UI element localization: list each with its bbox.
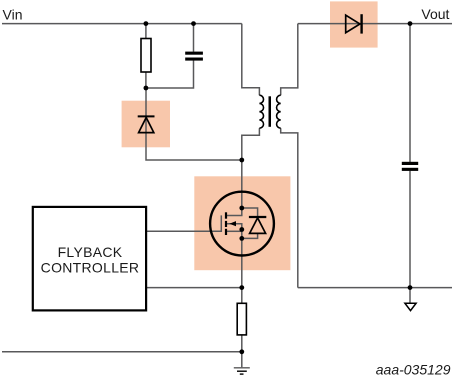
wire Vin rail (2, 23, 242, 25)
wire output capacitor C2 leads (409, 24, 411, 288)
transistor Q1 MOSFET circle (210, 192, 274, 256)
svg-text:FLYBACK: FLYBACK (58, 244, 123, 260)
capacitor C1 snubber (185, 52, 203, 61)
highlight box MOSFET Q1 (194, 176, 290, 270)
wire MOSFET body-diode anode branch (242, 234, 258, 239)
ground symbol primary (234, 368, 250, 374)
highlight box output diode D2 (330, 1, 378, 47)
wire output rail top (298, 23, 452, 25)
ground symbol secondary (405, 303, 416, 310)
wire R1 top lead (145, 24, 147, 39)
svg-text:aaa-035129: aaa-035129 (376, 362, 451, 378)
node Vout (408, 21, 413, 26)
transistor Q1 substrate arrow (229, 221, 236, 226)
resistor R1 snubber (141, 39, 151, 73)
svg-text:Vout: Vout (421, 6, 449, 22)
node source / sense (239, 285, 244, 290)
node Q1 body diode anode (239, 236, 244, 241)
wire output return rail (298, 287, 452, 289)
wire MOSFET source lead to sense resistor (241, 230, 243, 304)
wire output ground stub (409, 288, 411, 303)
diode D2 output rectifier (346, 14, 362, 33)
node sense / ground rail (239, 349, 244, 354)
wire MOSFET body/arrow branch (227, 224, 242, 230)
wire transformer secondary bottom lead (281, 128, 298, 287)
wire R2 bottom lead (241, 335, 243, 352)
diode D1 clamp (138, 116, 155, 132)
highlight box clamp diode D1 (122, 101, 170, 148)
svg-text:Vin: Vin (3, 7, 23, 23)
node Q1 source internal (239, 227, 244, 232)
node Vin rail / C1 (191, 21, 196, 26)
transformer T1 core (269, 96, 272, 127)
resistor R2 sense (237, 303, 246, 335)
wire ground stub (241, 352, 243, 368)
node Q1 drain internal (239, 206, 244, 211)
transistor Q1 channel dashes (225, 212, 227, 235)
transformer T1 secondary winding (277, 95, 281, 128)
transistor Q1 body diode (249, 217, 266, 233)
wire MOSFET source internal (227, 230, 242, 232)
node drain / clamp return (239, 158, 244, 163)
wire C1 bottom lead to node (146, 60, 194, 88)
wire transformer primary leads (242, 24, 260, 208)
transformer T1 primary winding (259, 95, 263, 128)
capacitor C2 output (402, 162, 418, 171)
wire R1 bottom lead (145, 72, 147, 88)
node Vin rail / R1 (144, 21, 149, 26)
wire primary ground rail (2, 351, 242, 353)
flyback controller box U1 (33, 207, 146, 311)
wire clamp diode branch to drain node (146, 88, 242, 160)
wire C1 top lead (193, 24, 195, 52)
wire controller sense line (146, 287, 242, 289)
wire MOSFET body-diode cathode branch (242, 208, 258, 216)
svg-text:CONTROLLER: CONTROLLER (41, 260, 140, 276)
wire gate lead with gate bar (146, 215, 221, 231)
node output return / C2 (408, 285, 413, 290)
wire transformer secondary top lead (281, 24, 298, 96)
node snubber / clamp (144, 86, 149, 91)
wire MOSFET drain internal (227, 208, 242, 216)
